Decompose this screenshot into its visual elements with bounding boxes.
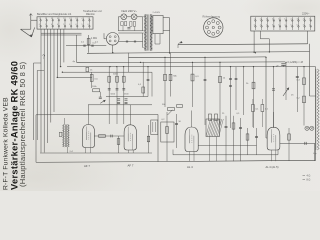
capacitor string x=117.0: [116, 67, 118, 124]
mains wiring: [118, 16, 121, 18]
svg-text:2: 2: [69, 18, 70, 20]
wire: [296, 67, 298, 112]
cap C8b: [99, 96, 102, 98]
bus B3: [129, 56, 267, 59]
terminal 8: [82, 18, 84, 29]
wires from output strip: [253, 31, 255, 52]
resistor R17: [151, 120, 158, 135]
diode arrow: [100, 100, 105, 103]
svg-text:AL 4 (AL 5): AL 4 (AL 5): [266, 165, 279, 169]
terminal R2: [261, 17, 263, 30]
svg-text:220V~: 220V~: [302, 12, 310, 16]
wire to V2 top: [88, 105, 90, 125]
svg-text:0,1+680p × JZ: 0,1+680p × JZ: [288, 61, 304, 64]
svg-text:1 MΩ: 1 MΩ: [91, 37, 97, 40]
svg-text:5: 5: [309, 18, 310, 20]
svg-text:Netz 220 V~: Netz 220 V~: [122, 9, 138, 13]
wire to V5 top: [273, 112, 275, 127]
svg-text:3: 3: [254, 24, 255, 26]
resistor R1: [88, 35, 90, 53]
tube V2 AF7: [82, 125, 94, 148]
mid horizontal links: [151, 72, 153, 96]
resistor R14: [93, 89, 100, 92]
svg-text:50k: 50k: [162, 104, 165, 106]
svg-text:5: 5: [278, 18, 279, 20]
terminal 3: [52, 18, 54, 29]
caps pair C8: [117, 98, 120, 100]
svg-text:Mikrofon: Mikrofon: [86, 13, 96, 16]
wire to V3 top: [129, 105, 131, 125]
capacitor C2: [281, 63, 285, 65]
terminal 4: [58, 18, 60, 29]
svg-text:6: 6: [69, 24, 70, 26]
components near V5: [246, 134, 249, 140]
terminal R8: [297, 17, 299, 30]
cap C10: [110, 135, 112, 138]
string x=205: [204, 57, 206, 125]
terminal 6: [70, 18, 72, 29]
svg-text:3: 3: [51, 18, 52, 20]
wire: [33, 63, 35, 140]
svg-text:3: 3: [303, 24, 304, 26]
svg-text:3: 3: [297, 18, 298, 20]
tube V3 AF7: [124, 125, 136, 150]
cap C7: [273, 67, 275, 128]
svg-text:4: 4: [303, 18, 304, 20]
caps C5 C6: [230, 67, 232, 128]
wire T3 plate to V5: [198, 145, 257, 147]
svg-text:AL 4: AL 4: [187, 165, 193, 169]
terminal 9: [88, 18, 90, 29]
bus B4: [77, 61, 285, 64]
switch S1: [121, 22, 123, 26]
bus B6a: [62, 71, 152, 73]
svg-text:2×300V: 2×300V: [153, 11, 161, 14]
resistors R7 R8: [164, 57, 166, 107]
bus B1: [178, 43, 308, 46]
svg-text:1: 1: [88, 18, 89, 20]
svg-text:2: 2: [291, 18, 292, 20]
switch S2: [130, 22, 132, 27]
svg-text:3: 3: [278, 24, 279, 26]
resistor Rb + drop: [91, 72, 93, 88]
svg-text:1: 1: [63, 18, 64, 20]
wire: [36, 71, 38, 141]
resistor R6: [147, 67, 149, 97]
svg-text:2: 2: [45, 18, 46, 20]
terminal 1: [40, 18, 42, 29]
terminal R4: [273, 17, 275, 30]
svg-text:4: 4: [272, 18, 273, 20]
wire rails under input box: [41, 32, 82, 34]
svg-text:6: 6: [88, 24, 89, 26]
cap C11 and wire: [280, 142, 315, 144]
wire bundle left: [40, 29, 42, 152]
rectifier tube V1 socket: [106, 33, 119, 46]
svg-text:4: 4: [284, 24, 285, 26]
svg-text:4: 4: [57, 24, 58, 26]
resistor R15: [99, 135, 106, 138]
driver transformer T5 hatched: [206, 119, 220, 137]
mains rails: [118, 30, 142, 32]
small box left of transformer: [59, 132, 62, 136]
svg-text:6: 6: [272, 24, 273, 26]
output transformer T4: [317, 69, 319, 150]
box pair near T5 top: [209, 114, 212, 121]
terminal 5: [64, 18, 66, 29]
caps right of T5: [225, 116, 227, 161]
svg-text:4: 4: [260, 24, 261, 26]
svg-text:4: 4: [309, 24, 310, 26]
chassis enclosure: [36, 115, 158, 163]
svg-text:(Hauptlautsprecherteil RKB 50: (Hauptlautsprecherteil RKB 50 8 S): [18, 61, 27, 187]
terminal 7: [76, 18, 78, 29]
resistor R10: [219, 62, 221, 125]
terminal R9: [304, 17, 306, 30]
resistor R9: [192, 62, 194, 107]
ground rail: [158, 160, 315, 161]
svg-text:50kΩ: 50kΩ: [113, 73, 118, 75]
svg-text:1: 1: [284, 18, 285, 20]
resistor R16: [117, 139, 120, 145]
heater taps: [126, 40, 128, 42]
right edge drop: [315, 67, 317, 161]
svg-text:3: 3: [266, 18, 267, 20]
svg-text:1: 1: [254, 18, 255, 20]
resistor R5: [142, 62, 144, 97]
svg-text:5: 5: [291, 24, 292, 26]
svg-text:AF 7: AF 7: [84, 164, 90, 168]
svg-text:Bandfilter und Klangblende mtl: Bandfilter und Klangblende mtl.: [37, 13, 72, 16]
bus B2: [87, 52, 310, 54]
potentiometer P1: [285, 62, 287, 100]
capacitor string x=109.2: [108, 67, 110, 124]
capacitor C1: [127, 27, 130, 29]
terminal R7: [291, 17, 293, 30]
svg-text:Tonabnehmer und: Tonabnehmer und: [83, 10, 102, 13]
bus B5: [67, 66, 316, 68]
svg-text:4 Ω: 4 Ω: [307, 175, 311, 178]
svg-text:8 Ω: 8 Ω: [307, 179, 311, 182]
fuse lamp F1: [121, 14, 127, 20]
svg-text:6: 6: [297, 24, 298, 26]
svg-text:4: 4: [82, 18, 83, 20]
bus B6b: [57, 76, 91, 78]
svg-text:4: 4: [75, 24, 76, 26]
svg-text:R-F-T Funkwerk Kölleda VEB: R-F-T Funkwerk Kölleda VEB: [2, 97, 9, 190]
terminal R5: [279, 17, 281, 30]
resistors R12 R13: [303, 67, 305, 126]
terminal R6: [285, 17, 287, 30]
earth arrow: [30, 14, 32, 21]
svg-text:AF 7: AF 7: [128, 164, 134, 168]
wire: [76, 35, 78, 62]
svg-text:6: 6: [51, 24, 52, 26]
resistor boxes x168-179: [168, 108, 175, 111]
jacks: [305, 126, 309, 130]
wire to V4 top: [191, 111, 193, 128]
caps 0,1: [83, 44, 85, 46]
resistor cluster x250-268: [252, 105, 255, 112]
svg-text:4: 4: [57, 18, 58, 20]
terminal R3: [267, 17, 269, 30]
rail y96: [106, 96, 148, 98]
output stage box bottom: [173, 154, 278, 156]
terminal R10: [310, 17, 312, 30]
svg-text:4: 4: [39, 24, 40, 26]
resistor R11: [253, 67, 255, 128]
resistor Ra: [86, 67, 89, 71]
components near V4: [161, 122, 174, 142]
mains transformer T1: [144, 14, 146, 50]
svg-text:?: ?: [42, 55, 45, 61]
svg-text:5: 5: [45, 24, 46, 26]
svg-text:5: 5: [63, 24, 64, 26]
string right x=243.6: [243, 67, 245, 115]
tube V5 AL4: [267, 127, 280, 150]
wire to rectifier tube: [66, 45, 106, 47]
rail y105: [88, 104, 152, 106]
svg-text:2: 2: [260, 18, 261, 20]
capacitor string x=123.8: [123, 67, 125, 124]
terminal 2: [46, 18, 48, 29]
svg-text:3: 3: [75, 18, 76, 20]
svg-text:5: 5: [82, 24, 83, 26]
rectifier block U1: [153, 16, 163, 34]
svg-text:5: 5: [266, 24, 267, 26]
tube V4 AL4: [185, 127, 198, 152]
caps pair C9: [125, 98, 128, 100]
terminal R1: [254, 17, 256, 30]
svg-text:1: 1: [39, 18, 40, 20]
fuse lamp F2: [131, 14, 137, 20]
interstage transformer T2: [63, 125, 65, 148]
rail y153: [40, 152, 152, 154]
